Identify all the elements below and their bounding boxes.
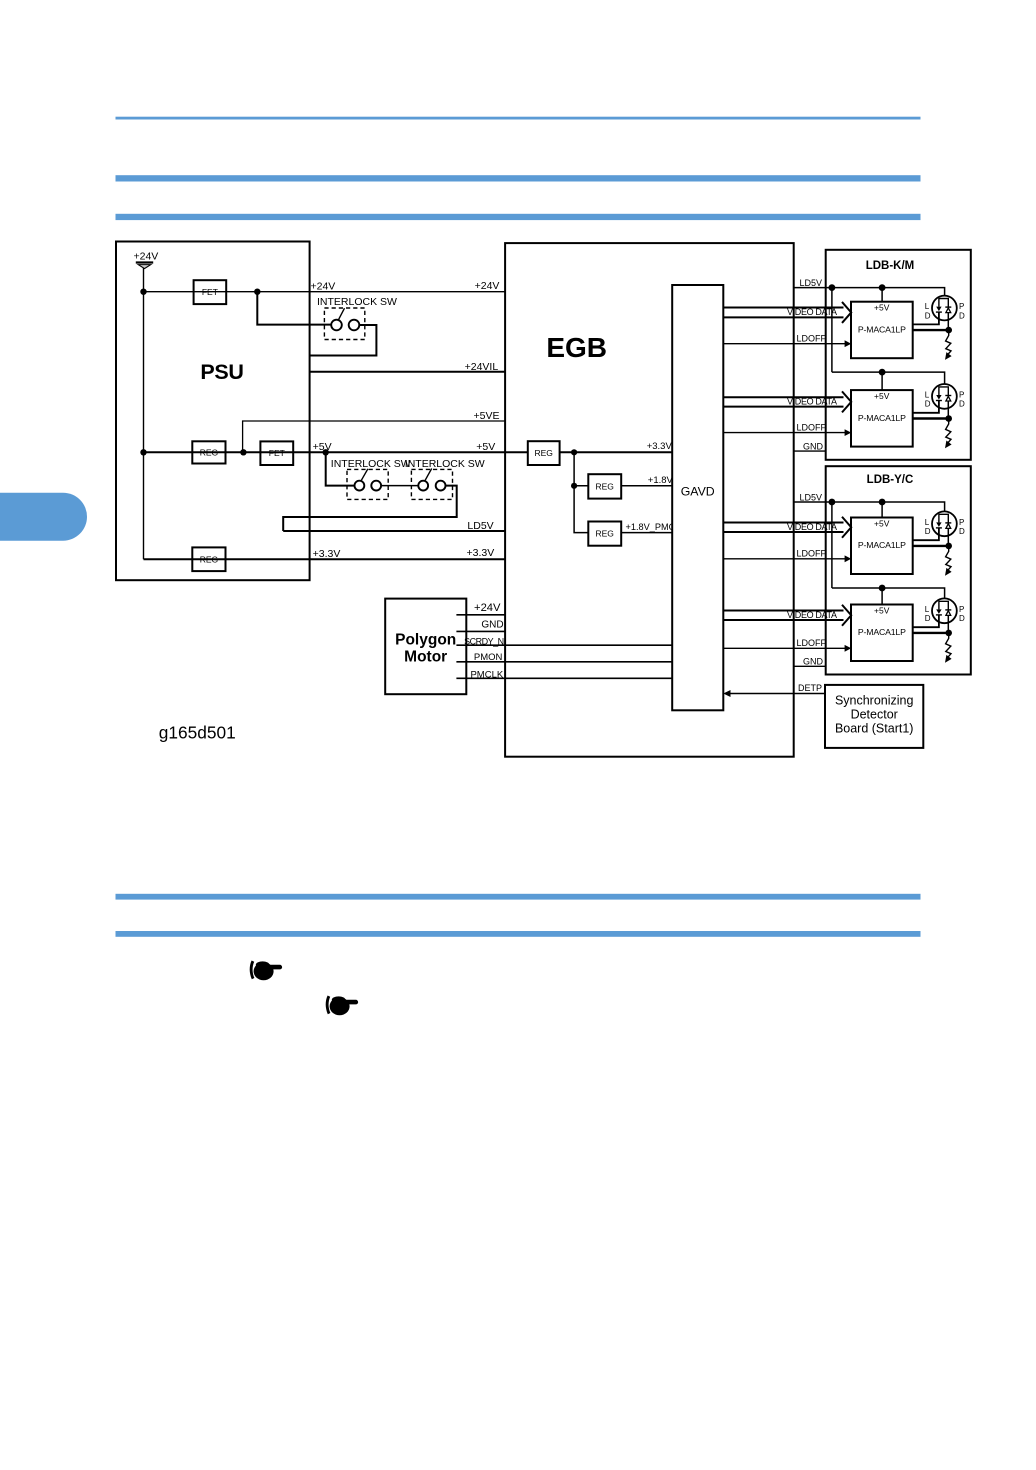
wire LD5V rail (channel 3) — [794, 502, 945, 511]
svg-text:+24V: +24V — [474, 602, 501, 614]
svg-text:Detector: Detector — [851, 707, 898, 721]
wire from SW1 to +24VIL — [310, 325, 377, 356]
svg-text:D: D — [959, 527, 965, 536]
svg-text:INTERLOCK SW: INTERLOCK SW — [331, 458, 411, 470]
REG block (EGB 3.3V) — [528, 441, 560, 465]
wire driver feedback (channel 1) — [913, 329, 949, 331]
svg-text:VIDEO DATA: VIDEO DATA — [787, 396, 837, 406]
bus VIDEO DATA (channel 1) — [723, 302, 851, 323]
svg-text:Board (Start1): Board (Start1) — [835, 722, 914, 736]
svg-text:REG: REG — [595, 529, 613, 539]
svg-text:LD5V: LD5V — [800, 492, 823, 502]
junction dot +5V pin (channel 3) — [879, 499, 886, 506]
power terminal symbol +24V — [136, 263, 153, 269]
blue horizontal rule 5 — [116, 931, 921, 937]
blue side tab (page margin marker) — [0, 493, 87, 541]
svg-text:REG: REG — [200, 554, 218, 564]
Polygon Motor label — [395, 631, 456, 665]
svg-text:+1.8V_PMC: +1.8V_PMC — [626, 522, 676, 532]
pin labels L D / P D (channel 4) — [925, 605, 965, 623]
EGB box — [505, 243, 794, 757]
svg-text:SCRDY_N: SCRDY_N — [464, 637, 504, 647]
pin labels L D / P D (channel 2) — [925, 390, 965, 408]
wire PSU left vertical bus from +24V terminal — [143, 268, 145, 559]
wire PMON — [456, 661, 672, 663]
wire +5V row — [144, 451, 528, 453]
Polygon Motor box — [385, 599, 466, 695]
svg-text:+1.8V: +1.8V — [648, 475, 674, 486]
interlock switch SW2 (dashed enclosure) — [347, 469, 388, 499]
wire feeder to REG 1.8V — [574, 452, 588, 486]
svg-text:P-MACA1LP: P-MACA1LP — [858, 540, 906, 550]
junction dot LD5V feeder tap (channel 3) — [829, 499, 836, 506]
svg-text:+5V: +5V — [313, 441, 332, 453]
wire PD anode down (channel 1) — [947, 313, 949, 331]
junction dot PD node (channel 1) — [945, 327, 952, 334]
interlock switch SW3 contacts — [418, 469, 445, 491]
svg-text:PMCLK: PMCLK — [470, 670, 503, 681]
svg-text:GND: GND — [481, 619, 503, 630]
svg-text:GND: GND — [803, 441, 824, 451]
laser diode package LD/PD (channel 2) — [932, 384, 957, 409]
laser diode package LD/PD (channel 1) — [932, 296, 957, 321]
GAVD IC box — [672, 285, 723, 710]
blue horizontal rule 4 — [116, 894, 921, 900]
svg-text:+5V: +5V — [874, 605, 890, 615]
svg-text:LDOFF: LDOFF — [797, 638, 827, 648]
svg-text:D: D — [959, 311, 965, 320]
svg-text:+24V: +24V — [475, 280, 500, 292]
svg-text:g165d501: g165d501 — [159, 723, 236, 743]
interlock switch SW2 contacts — [355, 469, 382, 491]
wire GND (channel 2) — [794, 450, 826, 452]
svg-text:FET: FET — [269, 448, 285, 458]
bus VIDEO DATA (channel 3) — [723, 517, 851, 538]
junction dot after FET — [254, 289, 260, 295]
svg-text:PSU: PSU — [200, 360, 243, 384]
svg-text:FET: FET — [202, 287, 218, 297]
svg-text:+3.3V: +3.3V — [647, 441, 673, 452]
wire LDOFF (channel 2) — [723, 429, 851, 436]
interlock switch SW1 contacts — [331, 308, 359, 330]
REG block (EGB 1.8V_PMC) — [588, 522, 621, 546]
junction dot +5V pin (channel 2) — [879, 369, 886, 376]
laser beam arrow (channel 3) — [945, 546, 952, 576]
REG block (5V) — [192, 441, 225, 463]
svg-text:LD5V: LD5V — [800, 278, 823, 288]
wire GND (channel 4) — [794, 665, 826, 667]
blue horizontal rule 2 — [116, 175, 921, 181]
wire PD anode down (channel 4) — [947, 615, 949, 633]
junction dot +5V tap to interlocks — [323, 449, 329, 455]
wire drop to interlock SW2 — [326, 452, 355, 485]
junction dot LD5V feeder tap (channel 1) — [829, 284, 836, 291]
svg-text:+5V: +5V — [874, 518, 890, 528]
svg-text:P: P — [959, 390, 964, 399]
junction dot left bus row2 — [140, 449, 146, 455]
wire GND polygon motor — [456, 630, 505, 632]
svg-text:GND: GND — [803, 657, 824, 667]
svg-text:Motor: Motor — [404, 648, 447, 665]
bus VIDEO DATA (channel 2) — [723, 391, 851, 412]
laser beam arrow (channel 1) — [945, 330, 952, 360]
wire LD5V rail (channel 2) — [832, 372, 945, 384]
junction dot +5VE tap — [240, 449, 246, 455]
wire PD anode down (channel 2) — [947, 401, 949, 419]
junction dot 3.3V rail — [571, 449, 577, 455]
svg-text:P-MACA1LP: P-MACA1LP — [858, 627, 906, 637]
svg-text:+3.3V: +3.3V — [467, 547, 495, 559]
wire LDOFF (channel 3) — [723, 555, 851, 562]
svg-text:L: L — [925, 518, 930, 527]
wire +1.8V_PMC to GAVD — [621, 532, 672, 534]
wire LD cathode to driver (channel 1) — [913, 312, 939, 324]
svg-text:+24VIL: +24VIL — [465, 361, 499, 373]
svg-text:P-MACA1LP: P-MACA1LP — [858, 324, 906, 334]
interlock switch SW1 (dashed enclosure) — [324, 308, 364, 340]
junction dot PD node (channel 2) — [945, 415, 952, 422]
svg-text:P: P — [959, 518, 964, 527]
wire LD5V rail (channel 1) — [794, 288, 945, 296]
wire +3.3V row — [144, 558, 506, 560]
svg-text:D: D — [959, 400, 965, 409]
wire +5V pin drop (channel 1) — [881, 288, 883, 302]
svg-text:+5V: +5V — [476, 441, 495, 453]
junction dot 1.8V tap — [571, 483, 577, 489]
pointing hand symbol 2 — [326, 996, 358, 1016]
laser diode package LD/PD (channel 4) — [932, 598, 957, 623]
svg-text:VIDEO DATA: VIDEO DATA — [787, 610, 837, 620]
svg-text:D: D — [925, 400, 931, 409]
wire +24V polygon motor — [456, 614, 505, 616]
svg-text:INTERLOCK SW: INTERLOCK SW — [317, 296, 397, 308]
svg-text:LDOFF: LDOFF — [797, 334, 827, 344]
wire between SW2 and SW3 — [381, 485, 418, 487]
wire LD cathode to driver (channel 2) — [913, 401, 939, 413]
wire LDOFF (channel 4) — [723, 645, 851, 652]
laser driver IC P-MACA1LP (channel 4) — [851, 605, 913, 662]
svg-text:+24V: +24V — [311, 280, 336, 292]
svg-text:VIDEO DATA: VIDEO DATA — [787, 307, 837, 317]
wire +5V pin drop (channel 3) — [881, 502, 883, 518]
Synchronizing Detector Board box — [825, 685, 923, 748]
interlock switch SW3 (dashed enclosure) — [411, 469, 452, 499]
wire feeder to REG 1.8V_PMC — [574, 486, 588, 533]
junction dot PD node (channel 4) — [945, 630, 952, 637]
wire LD5V feeder vertical (LDB-K/M) — [831, 288, 833, 373]
laser driver IC P-MACA1LP (channel 1) — [851, 302, 913, 359]
svg-text:REG: REG — [595, 481, 613, 491]
svg-text:P: P — [959, 302, 964, 311]
blue horizontal rule 1 (thin header rule) — [116, 117, 921, 120]
svg-text:DETP: DETP — [798, 683, 822, 693]
svg-text:LDB-Y/C: LDB-Y/C — [867, 474, 914, 486]
REG block (3.3V) — [192, 547, 225, 571]
wire +24VIL — [310, 371, 506, 373]
svg-text:+3.3V: +3.3V — [313, 548, 341, 560]
svg-text:REG: REG — [534, 448, 552, 458]
svg-text:Polygon: Polygon — [395, 631, 456, 648]
wire LD5V feeder vertical (LDB-Y/C) — [831, 502, 833, 588]
svg-text:LDOFF: LDOFF — [797, 549, 827, 559]
svg-text:+5V: +5V — [874, 303, 890, 313]
wire LD5V to EGB — [283, 530, 505, 532]
svg-text:+5V: +5V — [874, 391, 890, 401]
FET block (24V) — [194, 280, 227, 304]
laser driver IC P-MACA1LP (channel 3) — [851, 518, 913, 575]
wire DETP with arrow into GAVD — [723, 690, 825, 697]
svg-text:EGB: EGB — [546, 332, 607, 363]
wire SCRDY_N — [456, 644, 672, 646]
svg-text:P-MACA1LP: P-MACA1LP — [858, 413, 906, 423]
junction dot +5V pin (channel 1) — [879, 284, 886, 291]
LDB-K/M board box — [826, 250, 971, 460]
svg-text:L: L — [925, 302, 930, 311]
wire drop to interlock SW 1 — [257, 292, 331, 325]
pin labels L D / P D (channel 3) — [925, 518, 965, 536]
wire driver feedback (channel 4) — [913, 632, 949, 634]
svg-text:L: L — [925, 390, 930, 399]
svg-text:L: L — [925, 605, 930, 614]
wire from SW3 to LD5V — [283, 486, 457, 531]
Synchronizing Detector Board label — [835, 693, 914, 735]
svg-text:VIDEO DATA: VIDEO DATA — [787, 522, 837, 532]
svg-text:D: D — [925, 527, 931, 536]
wire +24V row — [144, 291, 506, 293]
svg-text:GAVD: GAVD — [681, 485, 715, 499]
wire +1.8V to GAVD — [621, 485, 672, 487]
wire LDOFF (channel 1) — [723, 340, 851, 347]
FET block (5V) — [260, 441, 293, 465]
wire +5V pin drop (channel 4) — [881, 588, 883, 605]
laser beam arrow (channel 4) — [945, 633, 952, 663]
svg-text:+24V: +24V — [134, 251, 159, 263]
svg-text:D: D — [925, 614, 931, 623]
svg-text:PMON: PMON — [474, 652, 503, 663]
svg-text:LD5V: LD5V — [467, 520, 493, 532]
svg-text:P: P — [959, 605, 964, 614]
svg-text:+5VE: +5VE — [474, 410, 500, 422]
PSU box — [116, 242, 310, 581]
pin labels L D / P D (channel 1) — [925, 302, 965, 320]
svg-text:Synchronizing: Synchronizing — [835, 693, 914, 707]
laser beam arrow (channel 2) — [945, 419, 952, 449]
svg-text:LDB-K/M: LDB-K/M — [866, 260, 915, 272]
bus VIDEO DATA (channel 4) — [723, 605, 851, 626]
junction dot PD node (channel 3) — [945, 543, 952, 550]
wire +5V pin drop (channel 2) — [881, 372, 883, 390]
wire +3.3V to GAVD — [560, 451, 673, 453]
wire +5VE — [243, 421, 506, 452]
laser diode package LD/PD (channel 3) — [932, 511, 957, 536]
svg-text:D: D — [925, 311, 931, 320]
wire LD cathode to driver (channel 4) — [913, 615, 939, 627]
blue horizontal rule 3 — [116, 214, 921, 220]
svg-text:INTERLOCK SW: INTERLOCK SW — [405, 458, 485, 470]
svg-text:REG: REG — [200, 448, 218, 458]
wire driver feedback (channel 3) — [913, 545, 949, 547]
REG block (EGB 1.8V) — [588, 474, 621, 498]
wire PMCLK — [456, 677, 672, 679]
wire LD5V rail (channel 4) — [832, 588, 945, 598]
junction dot +5V pin (channel 4) — [879, 585, 886, 592]
wire PD anode down (channel 3) — [947, 528, 949, 546]
LDB-Y/C board box — [826, 466, 971, 674]
laser driver IC P-MACA1LP (channel 2) — [851, 390, 913, 447]
pointing hand symbol 1 — [250, 961, 282, 981]
svg-text:D: D — [959, 614, 965, 623]
junction dot on +24V wire — [140, 289, 146, 295]
wire LD cathode to driver (channel 3) — [913, 528, 939, 540]
wire driver feedback (channel 2) — [913, 417, 949, 419]
svg-text:LDOFF: LDOFF — [797, 422, 827, 432]
